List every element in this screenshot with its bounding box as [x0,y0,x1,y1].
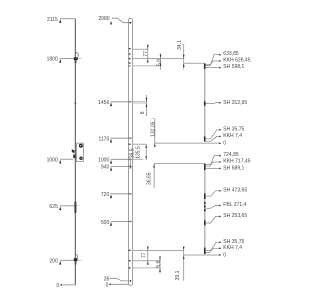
svg-text:0: 0 [56,283,59,289]
svg-text:720: 720 [101,192,110,198]
label FBL 371,4 [206,202,247,208]
label SH 253,65 [206,213,248,223]
dimension 0 center [106,282,129,288]
svg-text:KKH 7,4: KKH 7,4 [223,245,242,251]
svg-text:200: 200 [49,259,58,265]
dimension 60 (1000-940) [130,160,132,169]
label KKH 626,45 [206,58,251,66]
svg-text:135,5: 135,5 [136,146,142,159]
dimension 77 bottom [141,247,148,265]
svg-text:0: 0 [223,252,226,258]
cam ticks on center rail [129,48,131,269]
label SH 689,1 [206,166,245,172]
dimension 36,65 [147,163,205,188]
dimension 2115 [47,17,75,23]
svg-text:FBL 371,4: FBL 371,4 [223,202,246,208]
svg-text:625: 625 [49,204,58,210]
dimension 1170 [98,137,132,143]
bottom chain line c [133,267,161,269]
svg-text:SH 312,95: SH 312,95 [223,100,247,106]
top chain line a [133,48,148,50]
svg-text:5,8: 5,8 [156,59,162,66]
svg-text:38,5: 38,5 [130,148,136,158]
svg-text:0: 0 [223,140,226,146]
dimension 1000 center [98,158,143,164]
dimension 8 [133,95,148,116]
svg-text:2115: 2115 [47,17,58,23]
gearbox case on left rod [72,143,84,161]
dimension 0 left [56,283,75,289]
svg-text:1800: 1800 [47,57,58,63]
label KKH 717,45 [206,159,251,167]
dimension 5,8 top [156,53,162,69]
svg-text:1456: 1456 [98,100,109,106]
dimension 625 [49,204,80,210]
label 0 lower [219,252,226,258]
svg-text:SH 473,65: SH 473,65 [223,187,247,193]
svg-text:SH 598,1: SH 598,1 [223,64,244,70]
svg-text:1170: 1170 [98,137,109,143]
label KKH 7,4 upper [206,133,243,141]
svg-text:8: 8 [140,111,146,114]
top chain line b [133,58,184,60]
svg-text:5,8: 5,8 [156,261,162,268]
svg-text:633,85: 633,85 [223,51,239,57]
svg-text:0: 0 [106,282,109,288]
dimension 940 [101,165,133,171]
top chain line d to strike rail [184,62,205,64]
bottom chain line a [133,249,184,251]
lower strike rail [204,164,206,255]
svg-text:1000: 1000 [47,158,58,164]
center gear rail [128,19,132,286]
svg-text:2080: 2080 [98,16,109,22]
upper strike rail [204,63,206,141]
label 633,85 [206,51,239,64]
dimension 135,5 [133,144,147,160]
top chain line c [133,65,161,67]
dimension 132,05 [151,119,220,147]
small tick on left rod [75,102,77,104]
dimension 38,5 [130,148,136,158]
roller cam at 200 on left rod [74,254,78,264]
svg-text:36,65: 36,65 [147,172,153,185]
svg-text:SH 689,1: SH 689,1 [223,166,244,172]
leader 35 [104,276,132,282]
svg-text:77: 77 [141,252,147,258]
leader 2080 [98,16,131,24]
svg-text:39,1: 39,1 [175,270,181,280]
svg-text:1000: 1000 [98,158,109,164]
dimension 39,1 [175,247,185,281]
svg-text:724,85: 724,85 [223,152,239,158]
roller cam at 1800 on left rod [74,52,79,63]
svg-text:940: 940 [101,165,110,171]
label SH 598,1 [206,64,245,70]
dimension 34,1 [177,40,185,69]
dimension 500 [101,220,133,226]
dimension 720 [101,192,133,198]
thick segment at 625 on left rod [74,202,76,213]
dimension 77 top [143,44,149,62]
svg-text:77: 77 [143,51,149,57]
svg-text:SH 35,75: SH 35,75 [223,126,244,132]
label SH 35,75 lower [206,239,245,251]
svg-text:SH 253,65: SH 253,65 [223,213,247,219]
svg-text:KKH 717,45: KKH 717,45 [223,159,250,165]
svg-text:KKH 7,4: KKH 7,4 [223,133,242,139]
left rod (drive rod element) [74,19,76,285]
label 724,85 [206,152,239,165]
svg-text:500: 500 [101,220,110,226]
svg-text:35: 35 [104,276,110,282]
label KKH 7,4 lower [206,245,243,253]
label SH 312,95 [206,100,248,106]
dimension 1800 [47,57,82,63]
bottom zero line [184,254,220,256]
dimension 1456 [98,100,147,106]
dimension 200 [49,259,82,265]
dimension 1000 left [47,158,73,164]
svg-text:KKH 626,45: KKH 626,45 [223,58,250,64]
label SH 35,75 upper [206,126,245,139]
bottom chain line b [133,260,161,262]
label 0 upper [219,140,226,146]
svg-text:34,1: 34,1 [177,40,183,50]
dimension 5,8 bottom [156,256,162,273]
label SH 473,65 [206,187,248,196]
svg-text:132,05: 132,05 [151,121,157,137]
